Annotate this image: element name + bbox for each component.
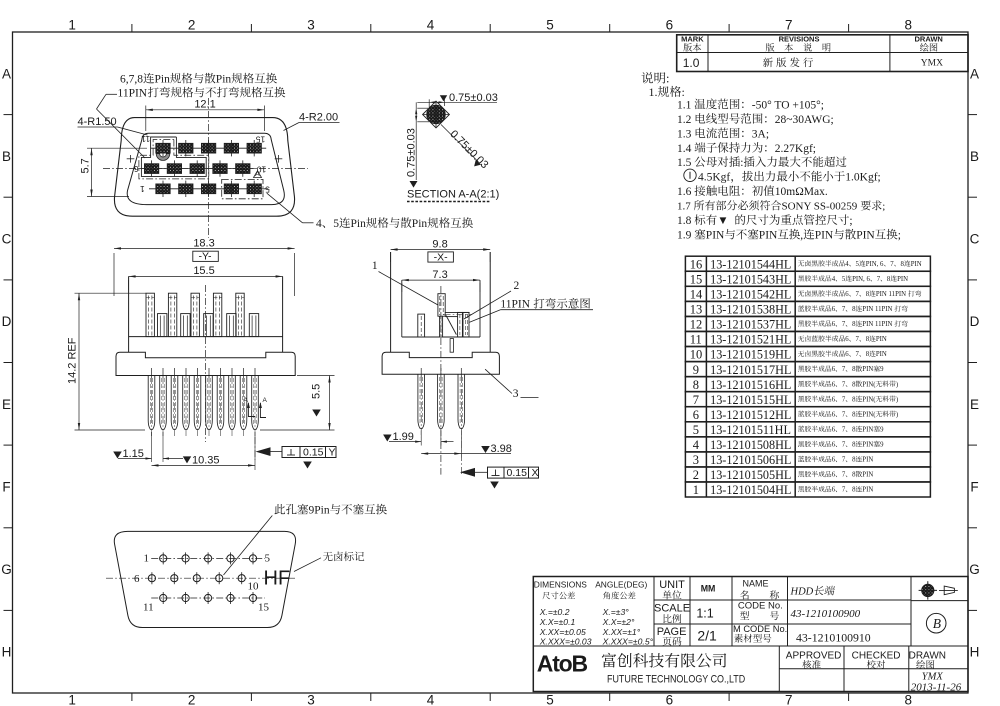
parts row 1 bbox=[685, 482, 930, 497]
svg-text:13-12101519HL: 13-12101519HL bbox=[710, 348, 791, 362]
svg-text:13-12101517HL: 13-12101517HL bbox=[710, 363, 791, 377]
svg-text:6: 6 bbox=[666, 18, 674, 33]
svg-text:1: 1 bbox=[693, 483, 699, 497]
title block bbox=[533, 577, 968, 692]
svg-text:1.: 1. bbox=[649, 85, 658, 99]
parts row 13 bbox=[685, 301, 930, 316]
svg-text:E: E bbox=[970, 397, 979, 412]
svg-text:7: 7 bbox=[856, 291, 860, 298]
rear pin numbers bbox=[144, 553, 150, 565]
pin cross-section diamond bbox=[423, 101, 450, 128]
tolerance frame perpendicularity 0.15 X bbox=[488, 467, 539, 478]
svg-text:-X-: -X- bbox=[434, 251, 449, 263]
svg-text:4.5Kgf: 4.5Kgf bbox=[698, 172, 730, 184]
cone symbol bbox=[939, 589, 958, 591]
svg-text:8: 8 bbox=[866, 336, 870, 343]
svg-text:13-12101516HL: 13-12101516HL bbox=[710, 378, 791, 392]
svg-text::: : bbox=[740, 157, 743, 169]
svg-text:28~30AWG;: 28~30AWG; bbox=[775, 114, 834, 126]
parts row 8 bbox=[685, 377, 930, 392]
dimension 7.3 bbox=[401, 283, 403, 292]
svg-text:7: 7 bbox=[842, 411, 846, 418]
svg-text:8: 8 bbox=[905, 693, 913, 706]
svg-text:;: ; bbox=[882, 201, 885, 213]
code no cell bbox=[738, 600, 783, 611]
svg-text:PIN: PIN bbox=[862, 487, 873, 494]
svg-text:PAGE: PAGE bbox=[657, 626, 687, 638]
svg-text:H: H bbox=[970, 645, 980, 660]
callout: 6,7,8 group label bbox=[120, 73, 277, 86]
name cell bbox=[743, 579, 769, 589]
15 square contacts (face view) bbox=[156, 143, 170, 153]
svg-text:9: 9 bbox=[693, 363, 699, 377]
svg-text:0.75±0.03: 0.75±0.03 bbox=[405, 128, 417, 177]
svg-text:1.15: 1.15 bbox=[123, 448, 144, 460]
svg-text:SONY SS-00259: SONY SS-00259 bbox=[782, 201, 858, 213]
svg-text:1: 1 bbox=[144, 553, 150, 565]
svg-text:X.=±3°: X.=±3° bbox=[602, 607, 630, 617]
svg-text:13-12101505HL: 13-12101505HL bbox=[710, 468, 791, 482]
svg-text:8: 8 bbox=[852, 487, 856, 494]
checked cell bbox=[852, 650, 901, 661]
label 4-R1.50 bbox=[78, 116, 117, 128]
svg-text:15: 15 bbox=[690, 272, 703, 286]
svg-text:5: 5 bbox=[333, 218, 339, 230]
svg-text:8: 8 bbox=[852, 411, 856, 418]
rear row center lines bbox=[151, 557, 265, 559]
svg-text:5: 5 bbox=[856, 261, 860, 268]
parts row 16 bbox=[685, 256, 930, 271]
svg-text:REVISIONS: REVISIONS bbox=[779, 34, 820, 43]
svg-text:DRAWN: DRAWN bbox=[915, 34, 943, 43]
svg-text:8: 8 bbox=[901, 261, 905, 268]
dimension 18.3 with datum -Y- bbox=[113, 253, 115, 296]
svg-text:PIN 11PIN: PIN 11PIN bbox=[862, 306, 892, 313]
svg-text:-Y-: -Y- bbox=[199, 251, 213, 263]
svg-text:PIN: PIN bbox=[862, 442, 873, 449]
note 1.7 bbox=[677, 200, 885, 212]
center line vertical (front view) bbox=[205, 285, 207, 442]
dimension 5.5 (front view) bbox=[297, 375, 335, 377]
page cell bbox=[657, 626, 687, 638]
dimension 1.15 bbox=[151, 432, 153, 462]
svg-text:13-12101512HL: 13-12101512HL bbox=[710, 408, 791, 422]
svg-text:B: B bbox=[970, 149, 979, 164]
pins bent 11PIN (side view) bbox=[458, 312, 463, 337]
svg-text:1.5: 1.5 bbox=[677, 157, 692, 169]
callout 2 bbox=[514, 280, 520, 292]
svg-text:4: 4 bbox=[693, 438, 700, 452]
svg-text:8: 8 bbox=[852, 366, 856, 373]
svg-text:PIN: PIN bbox=[876, 351, 887, 358]
svg-text:Pin: Pin bbox=[216, 74, 232, 86]
svg-text:): ) bbox=[896, 411, 898, 418]
svg-text:DIMENSIONS: DIMENSIONS bbox=[534, 580, 587, 590]
parts row 9 bbox=[685, 362, 930, 377]
svg-text:7: 7 bbox=[842, 306, 846, 313]
svg-text:3: 3 bbox=[307, 18, 315, 33]
svg-text:1.4: 1.4 bbox=[677, 143, 692, 155]
svg-text:6: 6 bbox=[832, 306, 836, 313]
svg-text:11: 11 bbox=[141, 134, 150, 144]
svg-text:4: 4 bbox=[427, 693, 435, 706]
svg-text:CODE No.: CODE No. bbox=[738, 600, 783, 611]
svg-text:9: 9 bbox=[880, 442, 884, 449]
svg-text:6: 6 bbox=[845, 336, 849, 343]
center tab (side view) bbox=[450, 339, 453, 353]
approved cell bbox=[786, 650, 842, 661]
dimension 9.8 with datum -X- bbox=[390, 252, 392, 262]
svg-text:8: 8 bbox=[852, 396, 856, 403]
svg-text:C: C bbox=[970, 232, 980, 247]
revisions headers bbox=[681, 34, 704, 43]
shroud walls (front view) bbox=[128, 276, 130, 352]
dimension 3.98 bbox=[460, 431, 462, 458]
shell face cross marks bbox=[127, 158, 135, 160]
svg-text:1.0: 1.0 bbox=[683, 56, 700, 70]
svg-text:7.3: 7.3 bbox=[432, 269, 447, 281]
svg-text:X.X=±0.1: X.X=±0.1 bbox=[539, 617, 576, 627]
svg-text:8: 8 bbox=[905, 18, 913, 33]
svg-text:B: B bbox=[2, 149, 11, 164]
body shoulder line (side view) bbox=[402, 336, 480, 338]
svg-text:PIN: PIN bbox=[759, 230, 778, 242]
parts row 12 bbox=[685, 316, 930, 331]
datum box -X- bbox=[428, 252, 454, 262]
note 1.3 bbox=[677, 128, 769, 141]
svg-text:10: 10 bbox=[690, 348, 703, 362]
svg-text:SCALE: SCALE bbox=[654, 603, 690, 615]
short front-row pins (front view) bbox=[158, 314, 167, 337]
parts row 5 bbox=[685, 422, 930, 437]
svg-text:7: 7 bbox=[842, 366, 846, 373]
parts row 14 bbox=[685, 286, 930, 301]
svg-text:13: 13 bbox=[690, 303, 703, 317]
m code no cell bbox=[733, 624, 787, 634]
svg-text:1: 1 bbox=[140, 184, 145, 194]
svg-text:HF: HF bbox=[264, 568, 291, 590]
svg-text:,: , bbox=[800, 230, 803, 242]
svg-text:43-1210100900: 43-1210100900 bbox=[791, 608, 861, 620]
pin tall center (side view) bbox=[438, 294, 445, 317]
border zone ticks bbox=[131, 24, 133, 32]
svg-text:2013-11-26: 2013-11-26 bbox=[911, 682, 962, 694]
svg-text:X.XXX=±0.5°: X.XXX=±0.5° bbox=[602, 637, 654, 647]
svg-text:7: 7 bbox=[842, 442, 846, 449]
svg-text:6: 6 bbox=[845, 351, 849, 358]
section dim diagonal 0.75 bbox=[441, 125, 479, 163]
callout 1 bbox=[372, 260, 378, 272]
flange (front view) bbox=[116, 352, 295, 375]
svg-text:1: 1 bbox=[372, 260, 378, 272]
parts row 6 bbox=[685, 407, 930, 422]
pin row lines (face view) bbox=[151, 147, 266, 149]
svg-text:HDD: HDD bbox=[790, 587, 814, 598]
svg-text:7: 7 bbox=[856, 351, 860, 358]
svg-text:4: 4 bbox=[845, 261, 849, 268]
svg-text:PIN: PIN bbox=[862, 472, 873, 479]
callout: halogen-free label bbox=[323, 552, 364, 562]
shell outer outline 4-R2.00 bbox=[114, 118, 294, 217]
svg-text:7: 7 bbox=[856, 336, 860, 343]
svg-text:8: 8 bbox=[866, 291, 870, 298]
projection symbol bbox=[922, 584, 934, 596]
svg-text:1.2: 1.2 bbox=[677, 114, 692, 126]
svg-text:;: ; bbox=[898, 230, 901, 242]
bottom pins x10 (front view) bbox=[151, 368, 153, 378]
flange (side view) bbox=[382, 352, 499, 374]
svg-text:7: 7 bbox=[890, 261, 894, 268]
svg-text:13-12101537HL: 13-12101537HL bbox=[710, 318, 791, 332]
svg-text:PIN: PIN bbox=[897, 276, 908, 283]
svg-text:6: 6 bbox=[134, 164, 139, 174]
group outline pins 4,5 (dash-dot) bbox=[222, 179, 263, 198]
svg-text:PIN(: PIN( bbox=[862, 381, 876, 388]
svg-text:6: 6 bbox=[693, 408, 699, 422]
svg-text:13-12101504HL: 13-12101504HL bbox=[710, 483, 791, 497]
drawn signature YMX bbox=[922, 672, 944, 683]
note 1.4 bbox=[677, 142, 816, 155]
svg-text:AtoB: AtoB bbox=[537, 651, 588, 677]
svg-text:1.99: 1.99 bbox=[393, 431, 414, 443]
svg-text:13-12101506HL: 13-12101506HL bbox=[710, 453, 791, 467]
svg-text:7: 7 bbox=[842, 381, 846, 388]
svg-text:9: 9 bbox=[880, 366, 884, 373]
svg-text:13-12101543HL: 13-12101543HL bbox=[710, 272, 791, 286]
gray bend indicator under pin 11 bbox=[156, 154, 170, 161]
svg-text:0.15: 0.15 bbox=[507, 467, 528, 479]
svg-text:8: 8 bbox=[852, 381, 856, 388]
svg-text:-50° TO +105°;: -50° TO +105°; bbox=[752, 99, 824, 111]
svg-text:15.5: 15.5 bbox=[193, 265, 214, 277]
svg-text:13-12101521HL: 13-12101521HL bbox=[710, 333, 791, 347]
svg-text:7: 7 bbox=[842, 321, 846, 328]
pin short left (side view) bbox=[418, 314, 425, 337]
svg-text:5: 5 bbox=[842, 276, 846, 283]
shell inner outline 4-R1.50 bbox=[127, 133, 284, 204]
svg-text:8: 8 bbox=[866, 351, 870, 358]
svg-text:UNIT: UNIT bbox=[659, 579, 685, 591]
svg-text:PIN: PIN bbox=[815, 230, 834, 242]
svg-text:8: 8 bbox=[887, 276, 891, 283]
svg-text:0.15: 0.15 bbox=[303, 446, 324, 458]
parts row 7 bbox=[685, 392, 930, 407]
svg-text:8: 8 bbox=[852, 472, 856, 479]
callout: plug pin 9 note bbox=[274, 504, 386, 517]
company name CN bbox=[602, 653, 726, 668]
svg-text:43-1210100910: 43-1210100910 bbox=[796, 631, 871, 645]
dimension 10.35 bbox=[254, 432, 256, 470]
title block grid lines bbox=[653, 577, 655, 647]
pin tall center lower narrow section bbox=[439, 316, 441, 337]
svg-text:6: 6 bbox=[832, 366, 836, 373]
dimension tolerances bbox=[539, 607, 570, 617]
svg-text:7: 7 bbox=[842, 487, 846, 494]
pin numbers (face view, rotated) bbox=[141, 134, 150, 144]
svg-text:4: 4 bbox=[316, 218, 322, 230]
revision row 1.0 bbox=[683, 56, 700, 70]
svg-text:): ) bbox=[896, 381, 898, 388]
parts row 3 bbox=[685, 452, 930, 467]
dimension 1.99 bbox=[420, 431, 422, 446]
svg-text:B: B bbox=[933, 616, 941, 631]
svg-text:PIN, 6: PIN, 6 bbox=[866, 261, 884, 268]
svg-text:6: 6 bbox=[845, 291, 849, 298]
svg-text:X.X=±2°: X.X=±2° bbox=[602, 617, 635, 627]
border zone letters left/right bbox=[2, 66, 11, 81]
svg-text:PIN: PIN bbox=[862, 366, 873, 373]
svg-text:5: 5 bbox=[265, 185, 270, 195]
svg-text:6: 6 bbox=[832, 411, 836, 418]
callout: 4,5 group label bbox=[316, 217, 473, 230]
svg-text:X.XX=±0.05: X.XX=±0.05 bbox=[539, 627, 586, 637]
note 1.5 bbox=[677, 156, 846, 169]
svg-text:PIN: PIN bbox=[911, 261, 922, 268]
svg-text:2: 2 bbox=[188, 693, 196, 706]
svg-text::: : bbox=[666, 72, 669, 86]
svg-text:PIN: PIN bbox=[862, 457, 873, 464]
svg-text:FUTURE TECHNOLOGY CO.,LTD: FUTURE TECHNOLOGY CO.,LTD bbox=[607, 674, 745, 686]
svg-text:11PIN: 11PIN bbox=[118, 88, 148, 100]
tolerance legend headers bbox=[534, 580, 587, 590]
svg-text:12: 12 bbox=[690, 318, 703, 332]
svg-text:NAME: NAME bbox=[743, 579, 769, 589]
svg-text:4: 4 bbox=[427, 18, 435, 33]
svg-text:2: 2 bbox=[188, 18, 196, 33]
svg-text:Pin: Pin bbox=[155, 74, 171, 86]
svg-text:PIN 11PIN: PIN 11PIN bbox=[862, 321, 892, 328]
svg-text:1.1: 1.1 bbox=[677, 99, 692, 111]
note 1.9 bbox=[677, 229, 901, 242]
svg-text:1: 1 bbox=[68, 18, 76, 33]
svg-text:5: 5 bbox=[693, 423, 699, 437]
note 1.6 bbox=[677, 185, 828, 198]
svg-text:13-12101544HL: 13-12101544HL bbox=[710, 257, 791, 271]
leader arrow to pin centerline (side view) bbox=[473, 471, 488, 473]
svg-text:1: 1 bbox=[68, 693, 76, 706]
svg-text:PIN: PIN bbox=[706, 230, 725, 242]
svg-text:MM: MM bbox=[701, 584, 716, 594]
note 1.8 bbox=[677, 214, 853, 227]
svg-text:A: A bbox=[2, 66, 11, 81]
inspection mark below frame Y bbox=[303, 462, 312, 469]
svg-text:PIN(: PIN( bbox=[862, 411, 876, 418]
svg-text:6: 6 bbox=[832, 442, 836, 449]
dimension 5.7 bbox=[87, 147, 147, 149]
callout: 11PIN bend label bbox=[118, 87, 286, 100]
svg-text:YMX: YMX bbox=[921, 59, 943, 69]
svg-text:8: 8 bbox=[693, 378, 699, 392]
svg-text:9: 9 bbox=[880, 426, 884, 433]
svg-text:13-12101538HL: 13-12101538HL bbox=[710, 303, 791, 317]
svg-text:6: 6 bbox=[832, 472, 836, 479]
parts row 10 bbox=[685, 347, 930, 362]
svg-text:1:1: 1:1 bbox=[696, 607, 713, 621]
svg-text:X: X bbox=[532, 467, 539, 479]
svg-text:APPROVED: APPROVED bbox=[786, 650, 842, 661]
border zone numbers top/bottom bbox=[68, 18, 76, 33]
svg-text:;: ; bbox=[849, 215, 852, 227]
drawn cell bbox=[909, 650, 946, 661]
rear shell outline bbox=[114, 531, 295, 627]
section cut arrows A-A (front view) bbox=[248, 403, 255, 417]
svg-text:PIN: PIN bbox=[876, 336, 887, 343]
bend diagonal bbox=[446, 315, 456, 334]
center line (side view) bbox=[440, 286, 442, 475]
revisions table bbox=[677, 35, 968, 72]
svg-text:ANGLE(DEG): ANGLE(DEG) bbox=[595, 580, 647, 590]
shroud base line bbox=[129, 336, 283, 338]
svg-text:H: H bbox=[2, 645, 12, 660]
parts row 11 bbox=[685, 331, 930, 346]
HF halogen-free mark bbox=[264, 568, 291, 590]
svg-text:14.2 REF: 14.2 REF bbox=[67, 337, 79, 384]
angle tolerances bbox=[602, 607, 630, 617]
svg-text:F: F bbox=[2, 479, 10, 494]
svg-text:13-12101511HL: 13-12101511HL bbox=[710, 423, 791, 437]
svg-text:13-12101515HL: 13-12101515HL bbox=[710, 393, 791, 407]
15 rear holes bbox=[160, 555, 167, 562]
svg-text:6: 6 bbox=[134, 573, 140, 585]
svg-text:11PIN: 11PIN bbox=[500, 299, 530, 311]
svg-text:3: 3 bbox=[307, 693, 315, 706]
svg-text:8: 8 bbox=[852, 442, 856, 449]
svg-text:4-R2.00: 4-R2.00 bbox=[299, 112, 338, 124]
note 1.1 bbox=[677, 99, 824, 112]
svg-text:13-12101508HL: 13-12101508HL bbox=[710, 438, 791, 452]
svg-text:3: 3 bbox=[513, 388, 519, 400]
svg-text:1.9: 1.9 bbox=[677, 230, 692, 242]
svg-text:5.7: 5.7 bbox=[80, 158, 92, 173]
svg-text:5: 5 bbox=[546, 18, 554, 33]
svg-text:13-12101542HL: 13-12101542HL bbox=[710, 288, 791, 302]
svg-text:14: 14 bbox=[690, 288, 703, 302]
notes heading bbox=[641, 72, 669, 86]
svg-text:4: 4 bbox=[832, 276, 836, 283]
section dim vertical 0.75 bbox=[417, 107, 428, 109]
svg-text:PIN(: PIN( bbox=[862, 396, 876, 403]
svg-text:8: 8 bbox=[852, 321, 856, 328]
svg-text:2.27Kgf;: 2.27Kgf; bbox=[775, 143, 816, 155]
svg-text:A: A bbox=[263, 397, 268, 404]
section dim horizontal 0.75 bbox=[428, 99, 430, 110]
svg-text:18.3: 18.3 bbox=[193, 237, 214, 249]
svg-text:7: 7 bbox=[693, 393, 699, 407]
svg-text:3A;: 3A; bbox=[752, 128, 769, 140]
bent 11PIN horizontal segment bbox=[445, 311, 469, 313]
inspection mark below frame X bbox=[490, 482, 499, 489]
svg-text:PIN: PIN bbox=[862, 426, 873, 433]
svg-text:PIN: PIN bbox=[856, 230, 875, 242]
company logo AtoB bbox=[537, 651, 588, 677]
label 11PIN bend diagram bbox=[500, 298, 590, 311]
svg-text:16: 16 bbox=[690, 257, 703, 271]
svg-text:6: 6 bbox=[832, 396, 836, 403]
svg-text:7: 7 bbox=[785, 693, 793, 706]
svg-text:2: 2 bbox=[693, 468, 699, 482]
svg-text:A: A bbox=[970, 66, 979, 81]
svg-text:15: 15 bbox=[255, 135, 265, 145]
svg-text:8: 8 bbox=[852, 426, 856, 433]
svg-text:Pin: Pin bbox=[351, 218, 367, 230]
svg-text:8: 8 bbox=[852, 306, 856, 313]
svg-text:6: 6 bbox=[832, 487, 836, 494]
svg-text:2/1: 2/1 bbox=[697, 628, 717, 644]
svg-text:6,7,8: 6,7,8 bbox=[120, 74, 143, 86]
svg-text:6: 6 bbox=[832, 321, 836, 328]
svg-text:1.3: 1.3 bbox=[677, 128, 692, 140]
body walls (side view) bbox=[390, 252, 392, 352]
